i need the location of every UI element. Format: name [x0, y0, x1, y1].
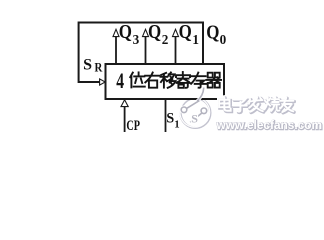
svg-text:3: 3: [133, 32, 140, 47]
svg-text:Q: Q: [148, 21, 161, 43]
svg-text:Q: Q: [119, 21, 132, 43]
svg-text:Q: Q: [206, 21, 219, 43]
svg-text:S: S: [83, 57, 92, 74]
svg-text:2: 2: [162, 32, 169, 47]
svg-text:0: 0: [220, 32, 227, 47]
svg-text:R: R: [95, 60, 104, 74]
svg-text:1: 1: [174, 120, 179, 131]
svg-text:4: 4: [116, 68, 124, 93]
svg-text:1: 1: [192, 32, 199, 47]
svg-text:S: S: [166, 111, 174, 127]
svg-text:CP: CP: [126, 118, 140, 134]
svg-text:Q: Q: [179, 21, 192, 43]
